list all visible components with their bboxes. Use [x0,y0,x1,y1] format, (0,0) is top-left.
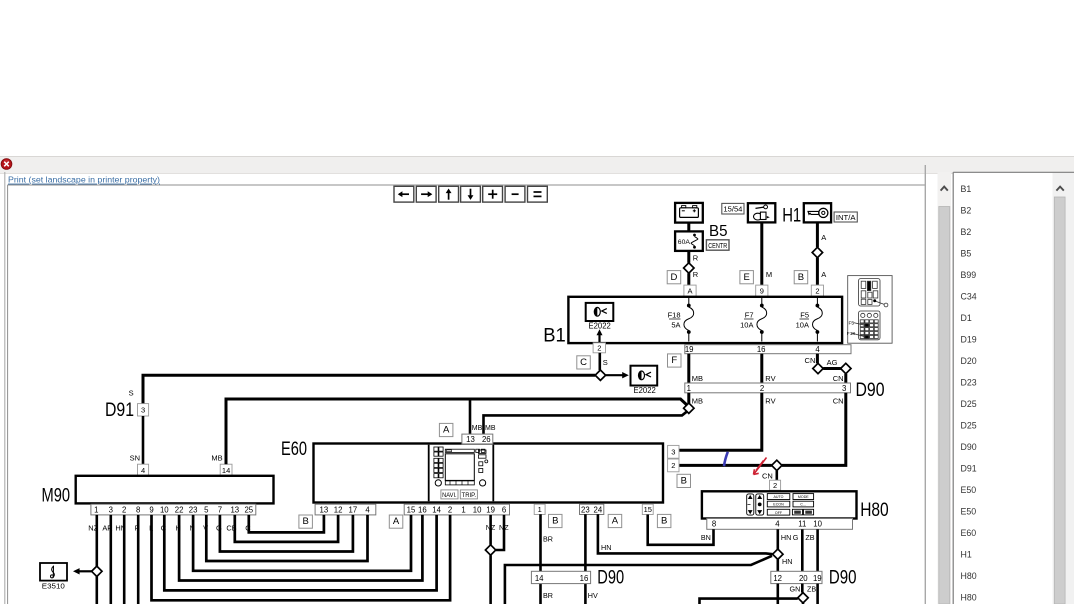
wire SN D91 to M90 pin 14x [142,416,145,464]
svg-text:10A: 10A [740,321,753,330]
pin 3 of E60 right [668,445,679,458]
svg-text:13: 13 [466,435,475,444]
fuse F18 5A [688,297,690,306]
body computer M90 [76,476,274,504]
svg-text:23: 23 [189,505,198,514]
svg-text:2: 2 [597,343,601,352]
svg-text:D1: D1 [961,313,972,323]
svg-text:D91: D91 [961,464,977,474]
svg-text:3: 3 [109,505,113,514]
svg-text:16: 16 [580,574,589,583]
svg-text:F18: F18 [668,311,681,320]
wire HN M90-2 down [123,515,126,604]
wire BR E60-1 down [539,514,542,604]
pin 2 below B1 [593,343,605,353]
connector letter A left [389,515,403,528]
wire C M90-10 to E60-14 [164,515,436,591]
junction diamond E3510 [92,566,102,576]
svg-text:D90: D90 [961,442,977,452]
svg-text:A: A [393,516,400,527]
svg-text:8: 8 [136,505,140,514]
wire NZ node down [96,577,99,604]
junction diamond S [595,370,605,380]
nav buttons [394,186,414,202]
svg-text:4: 4 [141,466,145,475]
svg-text:D19: D19 [961,335,977,345]
label NAVI [441,490,458,499]
connector strip D90 14 16 [531,571,590,583]
wire CN E60-2 to node [679,464,772,467]
svg-text:D25: D25 [961,399,977,409]
label TRIP [460,490,477,499]
H80 pin strip 8 4 11 10 [707,519,853,530]
wire bottom horizontal to GN node [700,599,798,604]
svg-text:1: 1 [461,505,465,514]
svg-text:M90: M90 [42,486,71,507]
wire HN D90-12 down [776,584,779,604]
list scrollbar up arrow [1056,187,1063,191]
wire HV E60-23 down [584,514,587,604]
svg-text:2: 2 [671,461,675,470]
svg-text:HV: HV [588,591,598,600]
svg-text:B: B [661,516,667,527]
pin 9 of B1 [756,285,768,296]
svg-text:15: 15 [644,505,652,514]
svg-text:Print (set landscape in printe: Print (set landscape in printer property… [8,175,160,185]
svg-text:15/54: 15/54 [723,205,742,214]
pin 2 of H80 [770,480,781,490]
svg-text:MB: MB [485,425,496,432]
toolbar strip [0,157,1074,174]
svg-text:OFF: OFF [775,511,783,515]
junction diamond R [684,263,694,273]
arrow from pin 2 to E2022 [597,329,603,342]
connector letter B [794,271,808,284]
svg-text:B2: B2 [961,206,972,216]
svg-text:26: 26 [482,435,491,444]
svg-text:E2022: E2022 [634,386,657,395]
svg-text:B: B [552,516,558,527]
svg-text:H1: H1 [961,550,972,560]
connector letter B left [299,515,313,528]
svg-text:CN: CN [762,471,773,480]
wire MB long horizontal [226,399,688,464]
main scrollbar track [938,172,952,604]
svg-text:8: 8 [712,520,716,529]
svg-text:E2022: E2022 [589,321,612,330]
connector letter A mid [608,514,622,527]
svg-text:NAVI.: NAVI. [442,492,457,499]
wire MB to E60 pin 26 [484,411,688,434]
svg-text:1: 1 [687,384,691,393]
E60 pin 1 strip [534,504,545,514]
pin 2 of E60 right [668,459,679,472]
svg-text:3: 3 [671,447,675,456]
svg-text:4: 4 [815,345,820,354]
svg-text:E50: E50 [961,485,977,495]
svg-text:6: 6 [502,505,506,514]
H80 buttons [747,494,814,515]
svg-text:D90: D90 [856,380,885,401]
B1 pin strip 19 16 4 [685,345,851,354]
svg-text:F5: F5 [800,311,809,320]
wire NZ M90-1 down [96,515,99,566]
svg-text:9: 9 [149,505,153,514]
E60 top pin strip 13 26 [462,434,493,444]
battery A1 [675,203,703,223]
page right border [924,165,926,604]
wire R M90-8 down [137,515,140,604]
svg-text:CENTR: CENTR [708,241,727,250]
wire A node to pin 2 [816,258,819,285]
svg-text:R: R [693,254,699,263]
label CENTR [706,240,729,250]
list scrollbar thumb [1054,197,1065,604]
svg-text:2: 2 [448,505,452,514]
svg-text:9: 9 [760,286,764,295]
fuse box B5 60A [675,231,703,251]
svg-text:G: G [793,533,799,542]
svg-text:13: 13 [230,505,239,514]
svg-text:19: 19 [486,505,495,514]
svg-text:12: 12 [773,574,782,583]
svg-text:F: F [671,355,677,366]
svg-text:20: 20 [799,574,808,583]
component list panel [953,172,1074,604]
wire CB M90-13 to E60-12 [235,515,338,542]
connector letter A above E60 [439,423,453,436]
pin A of B1 [684,285,696,296]
close button (red X) [1,159,12,170]
ignition switch symbol [748,203,775,222]
svg-text:B99: B99 [961,270,977,280]
svg-text:7: 7 [218,505,222,514]
svg-text:C…: C… [800,503,807,507]
svg-text:17: 17 [349,505,358,514]
svg-text:BR: BR [543,535,553,544]
wire S pin2 to node [598,353,601,370]
wire lower bundle to H80 node [505,556,772,604]
svg-text:A: A [687,286,692,295]
svg-text:D90: D90 [829,567,857,588]
junction diamond CN [772,460,782,470]
list scrollbar track [1053,173,1074,604]
svg-text:15: 15 [407,505,416,514]
main scrollbar up arrow [941,187,948,191]
svg-text:3: 3 [842,384,846,393]
display panel inside E60 [429,445,494,502]
wire NZ node down [489,555,492,604]
svg-text:E: E [743,272,749,283]
svg-text:M: M [766,270,772,279]
svg-text:D20: D20 [961,356,977,366]
svg-text:HN: HN [782,557,792,566]
arrow to E2022 [606,372,629,378]
svg-text:25: 25 [244,505,253,514]
page top border [8,184,925,186]
svg-text:C34: C34 [961,292,977,302]
svg-text:5: 5 [204,505,209,514]
junction diamond HN [773,549,783,559]
wire RV B1-16 to D90-2 [760,354,763,383]
pin 4 on M90 [138,464,149,476]
svg-text:H1: H1 [782,205,801,226]
svg-text:A: A [821,233,826,242]
svg-text:19: 19 [813,574,822,583]
svg-text:TRIP.: TRIP. [462,492,477,499]
svg-text:1: 1 [94,505,98,514]
svg-text:3: 3 [141,405,145,414]
svg-text:12: 12 [334,505,343,514]
wire AG jog [823,367,840,370]
wire MB B1-19 to D90-1 [687,354,690,383]
svg-text:14: 14 [222,466,230,475]
wire ZB D90-19 down [816,584,819,604]
connector D91 pin 3 [138,404,149,416]
svg-text:MB: MB [472,425,483,432]
junction diamond CN right [841,363,851,373]
wire N M90-23 to E60-15 [193,515,411,571]
connector letter D [667,271,681,284]
climate control H80 [702,491,857,518]
wire S long horizontal from D91 [143,375,595,403]
wire H M90-22 to E60-16 [179,515,422,581]
svg-text:B: B [798,272,804,283]
svg-text:D: D [671,272,678,283]
junction diamond CN left [813,363,823,373]
svg-text:B: B [681,476,687,487]
svg-text:C: C [580,357,587,368]
svg-text:CN: CN [833,374,844,383]
svg-text:AG: AG [827,358,838,367]
svg-text:RV: RV [765,374,775,383]
junction diamond GN [798,593,808,603]
svg-text:CN: CN [805,356,816,365]
svg-text:HN: HN [781,533,791,542]
wire R B5 to node [687,251,690,263]
wire V M90-5 to E60-4 [206,515,367,561]
svg-text:E60: E60 [961,528,977,538]
wire NZ E60-6 to node [496,515,504,550]
svg-text:16: 16 [757,345,766,354]
connector strip D90 12 20 19 [771,571,822,583]
wire R node to pin A [687,273,690,285]
connector letter F [668,354,682,367]
svg-text:10: 10 [160,505,169,514]
svg-text:SN: SN [130,453,140,462]
svg-text:CN: CN [833,396,844,405]
svg-text:F5: F5 [849,320,855,326]
svg-text:E60: E60 [281,439,307,460]
E60 pin strip 23 24 [580,504,604,514]
lamp symbol E2022 right [631,366,658,386]
svg-text:MB: MB [692,396,703,405]
wire G M90-7 to E60-17 [220,515,353,552]
wire HN H80-4 to node [776,529,779,549]
wire A key to node [816,222,819,247]
wire CN D90-3 to node [782,393,846,466]
svg-text:MB: MB [211,453,222,462]
svg-text:MODE: MODE [798,495,809,499]
svg-text:RV: RV [765,396,775,405]
svg-text:10A: 10A [796,321,809,330]
red highlight mark [754,458,767,475]
svg-text:23: 23 [581,505,590,514]
junction diamond A [812,247,822,257]
pin 14 on M90 [220,464,232,476]
wire HN E60-24 to H80 node [598,514,773,554]
svg-text:H80: H80 [860,500,889,521]
svg-text:14: 14 [535,574,544,583]
inset connector location drawing [847,276,892,344]
svg-text:F18: F18 [847,331,856,337]
E60 pin 15 strip [642,504,653,514]
label INT/A [834,212,857,222]
svg-text:2: 2 [760,384,764,393]
svg-text:B5: B5 [961,249,972,259]
wire GN D90-20 to node [801,584,804,593]
svg-text:BN: BN [701,533,711,542]
svg-text:B5: B5 [709,223,728,240]
svg-text:R: R [693,270,699,279]
wire NZ E60-19 to node [489,515,492,545]
wire CN node to H80 pin 2 [775,471,778,481]
svg-text:A: A [612,516,619,527]
connector strip D90 1 2 3 [685,383,851,393]
svg-text:D90: D90 [597,568,624,589]
svg-text:13: 13 [320,505,329,514]
connector letter C [577,356,591,369]
wire HN node to D90-12 [776,559,779,571]
svg-text:NZ: NZ [499,523,509,532]
M90 pin strip [91,504,256,515]
wire MB drop to E60 pin 13 [469,399,472,434]
svg-text:GN: GN [790,584,801,593]
svg-text:A: A [443,425,450,436]
svg-text:S: S [603,358,608,367]
junction diamond NZ [485,545,495,555]
arrow to E3510 [73,568,92,574]
svg-text:INT/A: INT/A [836,213,856,222]
connector letter E [740,271,754,284]
E60 pin strip A 15 16 14 2 1 10 19 6 [404,504,509,515]
navigation unit E60 [314,444,664,503]
svg-text:BR: BR [543,591,553,600]
svg-text:2: 2 [815,286,819,295]
svg-text:2: 2 [122,505,126,514]
svg-text:ZB: ZB [807,584,816,593]
fuse unit B1 [568,297,842,343]
svg-text:4: 4 [775,520,780,529]
svg-text:1: 1 [538,505,542,514]
svg-text:E50: E50 [961,507,977,517]
svg-text:B1: B1 [543,325,566,346]
connector letter B far [657,514,671,527]
lamp symbol E2022 inside B1 [586,303,614,321]
wire battery to B5 [687,223,690,232]
svg-text:16: 16 [418,505,427,514]
wire MB D90-1 to junction [687,393,690,403]
svg-text:MB: MB [692,374,703,383]
svg-text:B: B [302,516,308,527]
label 15/54 [722,203,744,214]
svg-text:D23: D23 [961,378,977,388]
fuse F5 10A [816,297,818,306]
svg-text:4: 4 [365,505,370,514]
svg-text:H80: H80 [961,571,977,581]
pin 2 of B1 [811,285,823,296]
horn symbol E3510 [40,563,67,581]
wire G H80-11 to D90-20 [801,529,804,571]
svg-text:D91: D91 [105,400,134,421]
wire BN H80-8 to E60-15 [648,515,714,545]
svg-text:H80: H80 [961,593,977,603]
wire AR M90-3 down [110,515,113,604]
E60 pin strip B 13 12 17 4 [315,504,376,515]
svg-text:B1: B1 [961,184,972,194]
wire L M90-9 to E60-2 [152,515,451,600]
svg-text:ZB: ZB [805,533,814,542]
svg-text:22: 22 [175,505,184,514]
svg-text:19: 19 [685,345,694,354]
svg-text:S: S [129,389,134,398]
svg-text:A: A [821,270,826,279]
wire CN node to D90-3 [844,374,847,383]
wire RV D90-2 to E60-3 [679,393,762,451]
wire CN B1-4 jog to D90-3 [816,354,819,364]
svg-text:10: 10 [813,520,822,529]
svg-text:NZ: NZ [486,523,496,532]
svg-text:ECON: ECON [773,503,784,507]
svg-text:14: 14 [432,505,441,514]
svg-text:B2: B2 [961,227,972,237]
wire C M90-25 to E60-13 [249,515,324,533]
svg-text:2: 2 [773,481,777,490]
key symbol H1 [804,203,831,222]
connector letter B mid [549,514,563,527]
page left border [4,172,6,604]
svg-text:5A: 5A [671,321,680,330]
wire M ignition to pin 9 [760,222,763,285]
svg-text:D25: D25 [961,421,977,431]
svg-text:AUTO: AUTO [774,495,784,499]
wire ZB H80-10 to D90-19 [816,529,819,571]
svg-text:HN: HN [601,543,611,552]
svg-text:60A: 60A [678,239,691,246]
svg-text:11: 11 [798,520,806,529]
junction diamond MB [684,403,694,413]
wire GN node down [802,603,805,604]
svg-text:E3510: E3510 [42,582,65,591]
blue highlight mark [724,452,728,466]
connector letter B right of E60 [677,474,691,487]
svg-text:F7: F7 [745,311,754,320]
main scrollbar thumb [939,207,950,604]
svg-text:24: 24 [594,505,603,514]
fuse F7 10A [761,297,763,306]
svg-text:10: 10 [473,505,482,514]
